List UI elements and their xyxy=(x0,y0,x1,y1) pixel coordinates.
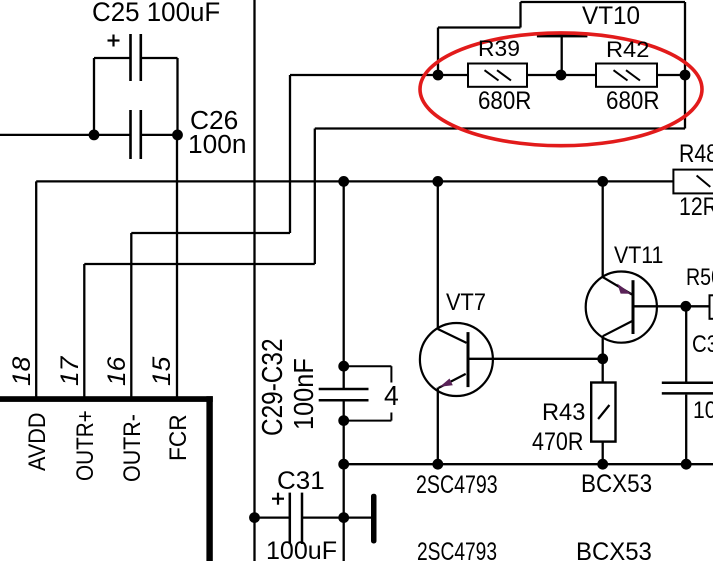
wire VT10 base xyxy=(561,37,563,75)
resistor R43 xyxy=(591,383,615,442)
wire C31 left xyxy=(255,516,290,518)
wire pin17 OUTR+ xyxy=(83,264,85,399)
C25 plus sign xyxy=(108,35,120,47)
wire top step horizontal xyxy=(438,26,521,28)
C29-C32 value label xyxy=(290,358,318,430)
wire pin15 FCR xyxy=(176,135,178,399)
VT7 emitter arrow xyxy=(440,379,453,387)
VT7 label xyxy=(446,291,486,316)
R42 value label xyxy=(606,89,659,114)
wire R39 to R42 xyxy=(527,74,596,76)
wire R42 right riser xyxy=(684,2,686,129)
VT10 label xyxy=(582,4,640,29)
VT11 label xyxy=(614,244,663,269)
wire down to R39 left xyxy=(437,28,439,76)
wire R42 right xyxy=(657,74,685,76)
wire AVDD bus down to C29 xyxy=(343,181,345,389)
wire C29 bracket bottom xyxy=(344,420,392,422)
node bus-VT11 junction xyxy=(597,176,608,187)
wire net to C26 left xyxy=(0,134,94,136)
resistor R48 xyxy=(673,170,713,194)
wire VT11 collector xyxy=(602,336,604,383)
node bottom rail VT7 emitter junction xyxy=(432,459,443,470)
C33 value label xyxy=(693,399,713,423)
C31 value label xyxy=(266,539,337,561)
wire C33 bottom xyxy=(685,395,687,465)
node R39-R42 center junction xyxy=(556,70,567,81)
node C26 left junction xyxy=(89,130,100,141)
R42 label xyxy=(606,39,649,61)
wire pin16 OUTR- xyxy=(130,233,132,399)
pin number 15 xyxy=(150,357,175,386)
VT12 part number label xyxy=(576,540,652,561)
R39 value label xyxy=(478,89,531,114)
wire OUTR- horizontal xyxy=(131,232,290,234)
R50 label xyxy=(686,266,713,290)
node bottom rail C33 junction xyxy=(681,459,692,470)
C29-C32 label xyxy=(259,338,288,435)
wire VT7 collector xyxy=(437,181,439,329)
capacitor C26 xyxy=(131,110,141,159)
IC body top edge xyxy=(0,396,213,402)
transistor VT11 xyxy=(586,272,657,343)
node VT7 base / VT11 collector junction xyxy=(597,353,608,364)
pin name OUTR- xyxy=(121,414,145,482)
node VT11 base junction xyxy=(680,301,691,312)
wire C26 left stub xyxy=(94,134,130,136)
R48 value label xyxy=(679,195,713,220)
resistor R42 xyxy=(596,64,657,87)
C26 label xyxy=(190,109,238,135)
wire C29 to bottom rail xyxy=(343,400,345,561)
node bottom rail C29 junction xyxy=(338,459,349,470)
VT11 emitter arrow xyxy=(617,284,631,294)
pin name FCR xyxy=(167,415,191,462)
capacitor C25 xyxy=(131,34,141,81)
node C31 left junction xyxy=(249,512,260,523)
R43 label xyxy=(542,401,585,425)
wire C25 right leg xyxy=(176,58,178,135)
wire VT11 base xyxy=(633,305,710,307)
C33 label xyxy=(692,333,713,357)
wire top edge xyxy=(521,1,686,3)
wire OUTR+ horizontal xyxy=(84,263,314,265)
wire VT7 base xyxy=(468,358,603,360)
pin number 18 xyxy=(10,357,35,386)
capacitor C31 xyxy=(290,493,302,544)
wire C26 right stub xyxy=(142,134,178,136)
VT7 part number label xyxy=(416,473,498,498)
terminal bar xyxy=(371,494,377,544)
wire OUTR+ vertical riser xyxy=(314,129,316,265)
C25 value label xyxy=(92,0,220,26)
C26 value label xyxy=(188,133,246,159)
resistor R39 xyxy=(468,64,527,87)
resistor R50 xyxy=(710,295,713,319)
wire C25 left stub xyxy=(94,57,130,59)
wire C29 bracket top xyxy=(344,365,392,367)
capacitor C33 xyxy=(662,383,713,394)
node C31 right junction xyxy=(338,512,349,523)
wire C25 right stub xyxy=(142,57,178,59)
wire VT11 emitter xyxy=(602,181,604,277)
wire C31 right xyxy=(302,516,371,518)
wire long vertical net xyxy=(253,0,255,561)
R48 label xyxy=(679,142,713,167)
wire VT7 emitter xyxy=(437,388,439,465)
IC body right edge xyxy=(206,396,212,561)
node C29 bottom junction xyxy=(338,415,349,426)
node C26 right junction xyxy=(172,130,183,141)
C31 label xyxy=(277,469,325,494)
pin name AVDD xyxy=(26,412,50,470)
wire top step vertical xyxy=(519,2,521,28)
VT11 part number label xyxy=(581,472,652,497)
node R42 right junction xyxy=(680,70,691,81)
R43 value label xyxy=(532,430,583,455)
C31 plus sign xyxy=(272,493,284,505)
wire OUTR- to R39 xyxy=(290,74,468,76)
node bus-C29 junction xyxy=(338,176,349,187)
red highlight ellipse xyxy=(420,33,702,146)
transistor VT10 base bar xyxy=(537,33,588,37)
wire bottom rail xyxy=(344,463,713,465)
pin number 17 xyxy=(58,357,83,386)
VT8 part number label xyxy=(417,540,497,561)
wire R43 bottom xyxy=(602,442,604,465)
transistor VT7 xyxy=(420,323,493,396)
node C29 top junction xyxy=(338,361,349,372)
C29 count label xyxy=(384,382,399,410)
wire OUTR+ to R42 xyxy=(315,127,685,129)
wire C33 top xyxy=(685,306,687,381)
wire C25 left leg xyxy=(93,58,95,135)
node bus-VT7 junction xyxy=(432,176,443,187)
pin name OUTR+ xyxy=(74,410,98,481)
node bottom rail R43 junction xyxy=(597,459,608,470)
wire C29 bracket right upper xyxy=(390,366,392,382)
wire AVDD bus xyxy=(36,180,673,182)
node R39 left junction xyxy=(433,70,444,81)
wire C29 bracket right lower xyxy=(390,413,392,421)
wire pin18 AVDD xyxy=(35,181,37,399)
R39 label xyxy=(478,38,520,60)
capacitor C29 xyxy=(319,389,369,400)
wire OUTR- vertical riser xyxy=(289,75,291,233)
pin number 16 xyxy=(105,357,130,386)
